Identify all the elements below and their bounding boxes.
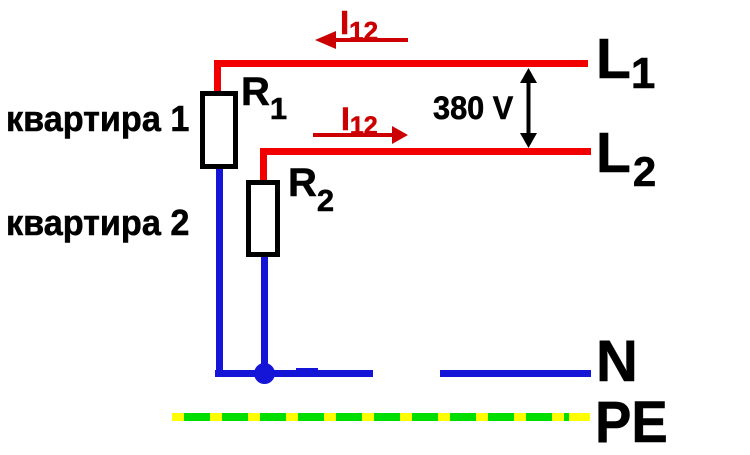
current arrow I12 lower (pointing right) [310,120,415,150]
wire L2 horizontal (red) [260,148,591,155]
label 380 V [433,92,513,124]
label N [596,333,638,391]
wire R2 to node (blue vertical) [261,255,268,377]
resistor R2 [246,180,280,257]
resistor R1 [200,91,238,169]
label I12 lower [341,103,378,139]
wire N overlay dash [296,368,318,377]
node junction dot [254,363,275,384]
wire PE (yellow/green dashed) [172,413,590,421]
wire PE end yellow dash [569,413,590,421]
label квартира 1 [6,101,189,137]
label L2 [596,125,656,193]
label R2 [288,163,334,216]
label L1 [596,31,655,96]
current arrow I12 upper (pointing left) [310,25,415,55]
wire N segment 2 (blue horizontal) [440,370,591,377]
label PE [595,394,668,452]
wire L2 drop to R2 (red vertical) [260,148,267,182]
label I12 upper [340,6,378,44]
wire L1 horizontal (red) [214,60,588,67]
label квартира 2 [6,205,189,241]
wire R1 to node (blue vertical) [216,166,223,377]
wire N segment 1 (blue horizontal) [215,370,373,377]
380V dimension arrow (double-headed vertical) [512,66,546,150]
label R1 [241,72,287,124]
wire L1 drop to R1 (red vertical) [214,60,221,94]
